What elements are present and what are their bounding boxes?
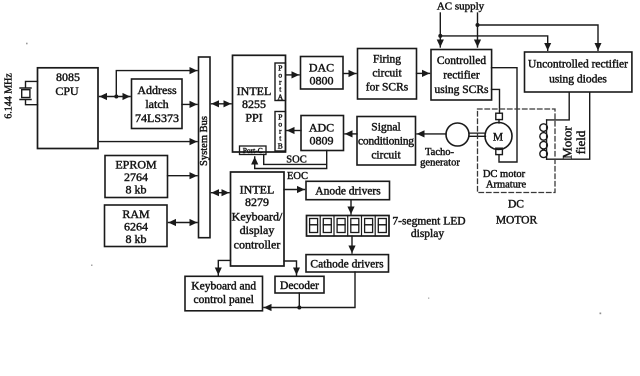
DC motor armature dashed boundary — [478, 109, 556, 193]
crystal X1 (6.144 MHz) — [4, 73, 38, 119]
svg-text:using diodes: using diodes — [549, 74, 607, 86]
wire shaft tacho to motor (double line) — [469, 133, 486, 136]
signal conditioning circuit — [357, 117, 416, 166]
wire 8279 to keyboard panel — [218, 260, 230, 274]
wire controlled rectifier to armature top terminal — [492, 89, 500, 113]
svg-text:latch: latch — [145, 97, 168, 111]
svg-text:8255: 8255 — [242, 97, 266, 111]
node junction left — [438, 34, 442, 38]
svg-text:System Bus: System Bus — [199, 116, 210, 166]
tacho-generator — [420, 123, 469, 169]
wire AC supply left drop — [439, 13, 441, 47]
wire 8279 to anode drivers — [284, 189, 305, 191]
port C of 8255 — [240, 146, 267, 155]
wire signal conditioning to ADC — [345, 133, 357, 135]
svg-text:control panel: control panel — [194, 294, 254, 306]
svg-text:rectifier: rectifier — [443, 70, 480, 82]
cathode drivers — [306, 255, 389, 272]
svg-text:0809: 0809 — [310, 134, 334, 148]
svg-text:7-segment LED: 7-segment LED — [392, 216, 465, 228]
7-segment LED display — [307, 216, 390, 237]
svg-text:PPI: PPI — [245, 111, 262, 125]
svg-text:8 kb: 8 kb — [126, 232, 147, 246]
wire controlled rectifier to armature bottom terminal — [492, 68, 518, 162]
svg-text:Address: Address — [137, 83, 177, 97]
svg-text:DC: DC — [508, 199, 524, 211]
wire decoder down to junction — [298, 293, 300, 308]
DAC 0800 — [301, 57, 344, 90]
node junction right — [476, 23, 480, 27]
svg-text:ADC: ADC — [309, 121, 334, 135]
svg-text:using SCRs: using SCRs — [434, 84, 489, 96]
address latch 74LS373 — [132, 79, 183, 129]
svg-text:controller: controller — [234, 238, 281, 252]
svg-text:Decoder: Decoder — [280, 280, 319, 292]
wire 8279 to decoder — [284, 261, 297, 275]
decoder — [275, 276, 324, 293]
svg-text:Tacho-: Tacho- — [425, 147, 455, 158]
svg-text:Uncontrolled rectifier: Uncontrolled rectifier — [528, 59, 628, 71]
port A of 8255 — [275, 63, 286, 102]
svg-text:8085: 8085 — [56, 70, 80, 84]
svg-text:SOC: SOC — [286, 155, 306, 166]
svg-text:EOC: EOC — [287, 171, 308, 182]
svg-text:Controlled: Controlled — [437, 55, 486, 67]
svg-text:8279: 8279 — [245, 195, 269, 209]
ADC 0809 — [301, 116, 344, 151]
wire CPU to address latch (bidirectional) — [100, 96, 131, 98]
port B of 8255 — [275, 112, 286, 152]
RAM 6264 — [105, 205, 168, 247]
wire latch to system bus — [182, 103, 197, 105]
svg-text:display: display — [240, 223, 275, 237]
node junction on CPU-latch wire — [114, 95, 118, 99]
svg-text:conditioning: conditioning — [358, 136, 414, 148]
wire bus to 8255 PPI (bidirectional) — [212, 103, 232, 105]
wire CPU to system bus — [100, 141, 198, 143]
svg-text:Port-C: Port-C — [243, 146, 263, 155]
svg-text:M: M — [493, 132, 503, 144]
firing circuit for SCRs — [358, 49, 417, 100]
wire ADC to port B — [287, 130, 301, 132]
svg-text:Keyboard and: Keyboard and — [191, 281, 256, 293]
svg-text:Signal: Signal — [371, 122, 400, 134]
svg-text:DAC: DAC — [309, 61, 334, 75]
wire display to cathode drivers — [351, 236, 353, 253]
svg-text:display: display — [411, 228, 444, 240]
EPROM 2764 — [105, 156, 168, 198]
wire bus to 8279 (bidirectional) — [212, 192, 230, 194]
wire anode drivers to display — [350, 200, 352, 214]
wire AC supply right drop — [477, 13, 479, 47]
svg-text:AC supply: AC supply — [437, 1, 485, 13]
svg-text:field: field — [573, 130, 588, 154]
wire EPROM to bus — [168, 175, 198, 177]
svg-text:8 kb: 8 kb — [126, 183, 147, 197]
wire DAC to firing circuit — [344, 73, 357, 75]
wire AC branch lower to uncontrolled rectifier — [440, 36, 547, 50]
svg-text:DC motor: DC motor — [483, 169, 526, 180]
DC motor M — [485, 113, 512, 154]
controlled rectifier using SCRs — [431, 50, 492, 101]
wire firing circuit to controlled rectifier — [417, 72, 430, 74]
svg-text:Keyboard/: Keyboard/ — [232, 210, 283, 224]
svg-text:PortB: PortB — [278, 113, 283, 151]
svg-text:generator: generator — [420, 158, 460, 169]
svg-text:Firing: Firing — [373, 54, 401, 66]
wire AC branch upper to uncontrolled rectifier — [478, 25, 599, 50]
svg-text:Armature: Armature — [486, 180, 527, 191]
INTEL 8279 keyboard/display controller U3 — [231, 172, 285, 266]
svg-text:Anode drivers: Anode drivers — [315, 186, 381, 198]
motor field winding L1 — [540, 93, 590, 160]
svg-text:Cathode drivers: Cathode drivers — [310, 259, 384, 271]
svg-text:CPU: CPU — [55, 84, 79, 98]
keyboard and control panel — [185, 276, 263, 311]
svg-text:74LS373: 74LS373 — [135, 111, 179, 125]
svg-text:circuit: circuit — [372, 68, 402, 80]
svg-text:PortA: PortA — [278, 64, 284, 102]
wire EOC from ADC to port C — [255, 151, 327, 169]
wire RAM to bus (bidirectional) — [169, 222, 198, 224]
svg-text:for SCRs: for SCRs — [366, 82, 409, 94]
8085 CPU U1 — [38, 68, 99, 149]
system bus — [199, 57, 211, 238]
svg-text:INTEL: INTEL — [237, 84, 272, 98]
svg-text:circuit: circuit — [371, 150, 401, 162]
wire port A to DAC — [286, 74, 300, 76]
wire junction up and over to system bus — [116, 71, 197, 97]
svg-text:0800: 0800 — [310, 74, 334, 88]
node junction on cathode-keyboard wire — [297, 306, 301, 310]
anode drivers — [306, 181, 390, 199]
scan specks (decorative noise) — [26, 43, 601, 315]
wire tacho to signal conditioning — [417, 133, 446, 135]
wire cathode drivers to keyboard panel — [264, 272, 355, 308]
svg-text:MOTOR: MOTOR — [496, 215, 538, 227]
uncontrolled rectifier using diodes — [525, 52, 632, 92]
INTEL 8255 PPI U2 — [233, 55, 286, 152]
svg-text:6.144 MHz: 6.144 MHz — [4, 73, 15, 119]
wire SOC from port C — [264, 155, 326, 165]
